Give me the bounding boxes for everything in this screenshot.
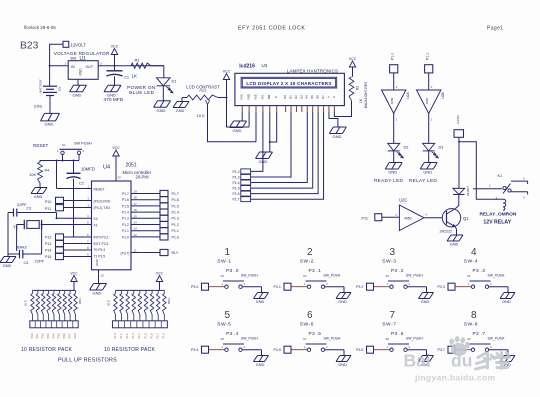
svg-text:P1.4: P1.4	[138, 333, 141, 339]
resistor pack 2 resistor 2	[120, 290, 124, 320]
wire Q1 collector	[456, 195, 459, 209]
svg-text:VDD: VDD	[247, 94, 251, 100]
svg-text:(P3.7): (P3.7)	[121, 251, 130, 255]
svg-text:RS: RS	[260, 95, 264, 99]
wire LCD K to R2	[334, 101, 351, 117]
wire LCD D5 bus	[251, 112, 313, 188]
wire pot wiper to VEE	[208, 105, 257, 142]
svg-text:R4: R4	[45, 169, 50, 173]
svg-text:(ON): (ON)	[34, 105, 42, 109]
svg-text:SW-7: SW-7	[382, 321, 396, 327]
svg-text:K1: K1	[498, 174, 503, 178]
svg-text:806: 806	[71, 56, 77, 60]
svg-text:VCC: VCC	[112, 146, 120, 150]
ground SW-5	[254, 356, 269, 367]
svg-text:P1.6: P1.6	[233, 192, 240, 196]
LED D3	[423, 143, 444, 158]
wire buffer to D2	[394, 114, 398, 144]
svg-text:GND: GND	[79, 68, 83, 76]
svg-text:R2: R2	[356, 86, 360, 90]
switch SW-1	[191, 247, 262, 293]
wire X2	[57, 214, 92, 218]
svg-text:D5: D5	[310, 95, 314, 99]
svg-text:11: 11	[134, 248, 137, 252]
ground under micro	[90, 284, 107, 296]
svg-text:15: 15	[134, 214, 138, 218]
ground SW-6	[336, 356, 351, 367]
resistor R4 10K	[29, 161, 49, 184]
svg-text:GND: GND	[93, 291, 102, 296]
resistor pack 2 resistor 9	[163, 290, 167, 320]
svg-text:1K: 1K	[359, 98, 363, 103]
ground SW-1	[254, 293, 269, 304]
svg-text:P1.0: P1.0	[122, 235, 129, 239]
wire buffer to D3	[429, 114, 433, 144]
svg-text:P0.6: P0.6	[63, 333, 66, 339]
svg-text:RW: RW	[267, 94, 271, 99]
svg-text:S6: S6	[221, 337, 225, 341]
VCC resistor pack 1	[70, 271, 78, 290]
svg-text:2: 2	[307, 247, 313, 258]
svg-text:10MFD: 10MFD	[81, 167, 95, 172]
svg-text:U3: U3	[262, 63, 268, 68]
svg-text:D1: D1	[172, 79, 178, 84]
svg-text:C2: C2	[79, 182, 84, 186]
svg-text:3: 3	[390, 247, 396, 258]
voltage regulator U1	[54, 51, 110, 79]
svg-text:10 RESISTOR PACK: 10 RESISTOR PACK	[21, 347, 72, 353]
svg-text:SW-4: SW-4	[464, 258, 478, 264]
svg-text:BLUE LED: BLUE LED	[129, 90, 154, 95]
wire regulator input	[50, 65, 69, 67]
switch SW-5	[191, 310, 262, 356]
svg-text:P1.3: P1.3	[122, 217, 129, 221]
ground SW-3	[419, 293, 434, 304]
svg-text:P1.5: P1.5	[172, 204, 179, 208]
terminal P1.0	[160, 234, 179, 240]
relay K1 contacts	[473, 174, 527, 200]
svg-text:GND: GND	[338, 363, 347, 367]
svg-text:S2: S2	[221, 274, 225, 278]
svg-text:GND: GND	[423, 170, 432, 175]
switch SW-3	[356, 247, 427, 293]
svg-text:P15: P15	[45, 255, 51, 259]
svg-text:7: 7	[390, 310, 396, 321]
wire P12 to micro	[64, 233, 92, 237]
relay K1 coil	[496, 196, 506, 210]
svg-text:GND: GND	[34, 195, 43, 199]
ground under R4	[31, 188, 47, 199]
terminal P1.2	[160, 221, 179, 227]
wire P15 to micro	[64, 252, 92, 256]
svg-text:P3.5: P3.5	[274, 348, 281, 352]
wire micro ground pin 10	[99, 270, 105, 284]
resistor pack 1 resistor 7	[63, 290, 67, 320]
svg-text:IN: IN	[71, 65, 75, 69]
svg-text:P1.1: P1.1	[172, 229, 179, 233]
svg-text:P1.5: P1.5	[233, 187, 240, 191]
svg-text:P0.2: P0.2	[42, 333, 45, 339]
svg-text:SW_PUSH: SW_PUSH	[324, 336, 341, 340]
svg-text:C1: C1	[124, 75, 130, 80]
svg-text:GND: GND	[157, 108, 166, 113]
svg-text:SW_PUSH: SW_PUSH	[488, 273, 505, 277]
wire C3 to X2	[56, 213, 58, 220]
svg-text:P0.7: P0.7	[68, 333, 71, 339]
svg-text:S9: S9	[467, 337, 471, 341]
svg-text:U2C: U2C	[399, 198, 407, 203]
svg-text:P1.6: P1.6	[150, 333, 153, 339]
svg-text:RN2: RN2	[167, 298, 171, 304]
svg-text:GND: GND	[450, 242, 459, 246]
svg-text:17: 17	[134, 202, 138, 206]
svg-text:GND: GND	[233, 128, 242, 133]
resistor pack 2 resistor 8	[156, 290, 160, 320]
svg-text:X1: X1	[94, 224, 98, 228]
ground LCD pin1	[230, 121, 247, 133]
svg-text:P1.7: P1.7	[233, 198, 240, 202]
resistor pack 2 resistor 7	[150, 290, 154, 320]
capacitor C2 10MFD	[67, 160, 95, 238]
wire VCC to LCD VDD	[227, 80, 250, 128]
svg-text:SW_PUSH: SW_PUSH	[324, 273, 341, 277]
svg-text:U4: U4	[103, 165, 110, 171]
resistor pack 2 resistor 3	[126, 290, 130, 320]
svg-text:EFY 2051 CODE LOCK: EFY 2051 CODE LOCK	[238, 26, 306, 32]
svg-text:P1.7: P1.7	[122, 192, 129, 196]
svg-text:GND: GND	[3, 264, 12, 268]
svg-text:S3: S3	[303, 274, 307, 278]
wire LCD RS to P1.2	[251, 112, 263, 171]
svg-text:D3: D3	[439, 146, 444, 150]
svg-text:P1.7: P1.7	[157, 333, 160, 339]
terminal RLY	[160, 249, 179, 255]
micro VCC pin 20	[112, 146, 121, 181]
svg-text:10K: 10K	[29, 172, 36, 177]
wire P1.0 to buffer	[394, 73, 398, 90]
wire LCD E to ground	[269, 112, 277, 143]
svg-text:D0: D0	[283, 95, 287, 99]
buffer U2A 4050	[382, 90, 411, 114]
svg-text:A: A	[326, 96, 330, 98]
capacitor C3 22PF	[8, 202, 57, 217]
wire micro P1.3	[131, 214, 160, 218]
svg-text:22PF: 22PF	[35, 259, 45, 264]
svg-text:P3.2: P3.2	[356, 285, 363, 289]
resistor R1 1K	[131, 58, 164, 79]
svg-text:P3 .0: P3 .0	[226, 268, 239, 274]
LED D1 power-on	[127, 78, 177, 95]
svg-text:12VOLT: 12VOLT	[71, 43, 87, 48]
micro pin names	[94, 187, 130, 266]
wire LCD D4 bus	[251, 112, 308, 183]
ground crystal	[0, 257, 16, 268]
terminal P1.5	[160, 203, 179, 209]
ground SW-4	[500, 293, 515, 304]
label resistor pack 2	[104, 298, 171, 353]
resistor pack 2 resistor 5	[138, 290, 142, 320]
svg-text:P11: P11	[45, 207, 51, 211]
terminal P13	[45, 240, 64, 246]
svg-text:1: 1	[225, 247, 231, 258]
svg-text:P1.0: P1.0	[163, 333, 166, 339]
svg-text:IN4007: IN4007	[466, 186, 470, 196]
svg-text:2N2222: 2N2222	[440, 230, 453, 234]
resistor pack 2 resistor 6	[144, 290, 148, 320]
svg-text:(P3.1) TXD: (P3.1) TXD	[94, 206, 111, 210]
svg-text:RLY: RLY	[172, 251, 179, 255]
switch SW-8	[438, 310, 509, 356]
svg-text:12: 12	[134, 233, 138, 237]
buffer U2C 4050	[399, 198, 428, 231]
resistor pack 1 resistor 4	[47, 290, 51, 320]
svg-text:P1.4: P1.4	[122, 211, 129, 215]
wire P10 to RXD	[64, 196, 92, 200]
wire micro P1.4	[131, 208, 160, 212]
svg-text:P0.0: P0.0	[74, 333, 77, 339]
svg-text:2051: 2051	[126, 163, 137, 169]
wire P11 to U2C	[382, 213, 400, 217]
label READY LED	[374, 178, 404, 183]
switch SW-2	[274, 247, 345, 293]
svg-text:POT: POT	[200, 89, 207, 93]
wire 12V input	[49, 44, 63, 86]
resistor pack 2 connector	[112, 321, 167, 328]
wire P13 to micro	[64, 239, 92, 243]
svg-text:RELAY_OMRON: RELAY_OMRON	[480, 211, 517, 217]
svg-text:GND: GND	[256, 300, 265, 304]
svg-text:RN1: RN1	[78, 298, 82, 304]
svg-text:P12: P12	[45, 236, 51, 240]
wire relay supply	[458, 137, 499, 199]
svg-text:P1.6: P1.6	[122, 198, 129, 202]
svg-text:P3.7: P3.7	[438, 348, 445, 352]
resistor pack 1 resistor 1	[31, 290, 35, 320]
wire X1	[42, 220, 92, 224]
micro U4 2051 box	[92, 163, 152, 270]
wire LCD VDD	[248, 112, 250, 127]
svg-text:16: 16	[134, 208, 138, 212]
label resistor pack 1	[21, 298, 82, 353]
wire P14 to micro	[64, 246, 92, 250]
svg-text:4050: 4050	[404, 216, 412, 220]
label RELAY LED	[409, 178, 437, 183]
svg-text:VCC: VCC	[70, 271, 78, 275]
wire micro P1.5	[131, 202, 160, 206]
svg-text:SW-5: SW-5	[217, 321, 231, 327]
svg-text:P1.2: P1.2	[126, 333, 129, 339]
svg-text:12V: 12V	[58, 86, 62, 91]
svg-text:U2B: U2B	[441, 91, 445, 98]
svg-text:P0.0: P0.0	[31, 333, 34, 339]
node B23	[20, 41, 39, 52]
svg-text:12V RELAY: 12V RELAY	[483, 219, 511, 225]
resistor pack 1 bus wire	[33, 289, 76, 291]
svg-text:10 K: 10 K	[107, 300, 111, 306]
svg-text:RELAY LED: RELAY LED	[409, 178, 437, 183]
svg-text:GND: GND	[502, 300, 511, 304]
label RESET	[33, 143, 49, 148]
svg-text:READY LED: READY LED	[374, 178, 404, 183]
svg-text:GND: GND	[107, 92, 116, 97]
svg-text:Q1: Q1	[463, 216, 469, 221]
svg-text:D1: D1	[288, 95, 292, 99]
svg-text:P1.4: P1.4	[233, 181, 240, 185]
svg-text:LCD DISPLAY 2 X 16 CHARACTERS: LCD DISPLAY 2 X 16 CHARACTERS	[246, 81, 331, 86]
port boxes P1.2-P1.7	[233, 169, 251, 202]
svg-text:LAMPEX HANTRONICS: LAMPEX HANTRONICS	[287, 68, 338, 73]
svg-text:D6: D6	[316, 95, 320, 99]
svg-text:P3.3: P3.3	[438, 285, 445, 289]
svg-text:10 K: 10 K	[24, 300, 28, 306]
terminal P11	[45, 205, 64, 211]
contrast pot 10K	[182, 84, 228, 118]
svg-text:BACKLIGHT RES: BACKLIGHT RES	[364, 81, 368, 108]
ground SW-2	[336, 293, 351, 304]
svg-text:D2: D2	[294, 95, 298, 99]
svg-text:GND: GND	[338, 300, 347, 304]
svg-text:C4: C4	[24, 261, 29, 265]
svg-text:P3 .1: P3 .1	[309, 268, 322, 274]
resistor pack 1 resistor 6	[58, 290, 62, 320]
diode D4 1N4007	[453, 186, 470, 196]
svg-text:P14: P14	[45, 249, 51, 253]
wire micro P1.2	[131, 221, 160, 225]
svg-text:P3 .5: P3 .5	[309, 331, 322, 337]
svg-text:(P3.0) RXD: (P3.0) RXD	[94, 199, 111, 203]
LCD pin stubs	[242, 106, 334, 112]
svg-text:SW_PUSH: SW_PUSH	[406, 336, 423, 340]
ground under C1	[104, 85, 124, 103]
svg-text:P0.4: P0.4	[52, 333, 55, 339]
push switch S1 reset	[57, 141, 92, 160]
svg-text:SW-8: SW-8	[464, 321, 478, 327]
terminal P15	[45, 253, 64, 259]
svg-text:S4: S4	[386, 274, 390, 278]
svg-text:+12VD: +12VD	[456, 114, 460, 124]
svg-text:8MHZ: 8MHZ	[16, 245, 27, 250]
wire micro P1.1	[131, 227, 160, 231]
svg-text:P1.3: P1.3	[233, 175, 240, 179]
svg-text:D4: D4	[305, 95, 309, 99]
wire crystal to X1	[41, 224, 43, 255]
svg-text:SW-3: SW-3	[382, 258, 396, 264]
resistor pack 2 resistor 1	[114, 290, 118, 320]
svg-text:R1: R1	[135, 58, 141, 63]
battery 12V	[34, 79, 62, 108]
svg-text:SW-6: SW-6	[300, 321, 314, 327]
svg-text:P3 .7: P3 .7	[473, 331, 486, 337]
svg-text:P3 .6: P3 .6	[391, 331, 404, 337]
svg-text:P1.5: P1.5	[122, 204, 129, 208]
svg-text:19: 19	[134, 190, 138, 194]
wire D2 to ground	[393, 151, 395, 163]
terminal P11 relay input	[362, 214, 382, 221]
svg-text:GND: GND	[95, 258, 99, 266]
crystal Y1	[13, 220, 42, 230]
svg-text:SW_PUSH: SW_PUSH	[241, 273, 258, 277]
wire P11 to TXD	[64, 203, 92, 207]
resistor pack 1 resistor 5	[52, 290, 56, 320]
svg-text:GND: GND	[176, 109, 185, 113]
svg-text:P1.0: P1.0	[172, 235, 179, 239]
wire P1.2 link	[251, 170, 263, 172]
buffer U2B 4050	[417, 90, 446, 114]
svg-text:VEE: VEE	[253, 94, 257, 100]
capacitor C1 470 MFD	[107, 66, 130, 86]
svg-text:P1.1: P1.1	[426, 53, 430, 60]
wire micro P1.7	[131, 190, 160, 194]
svg-text:S5: S5	[467, 274, 471, 278]
ground under Q1	[447, 235, 463, 246]
resistor pack 1 pin labels	[31, 333, 77, 339]
svg-text:P1.1: P1.1	[122, 229, 129, 233]
resistor pack 2 pin labels	[114, 333, 166, 339]
svg-text:P1.3: P1.3	[132, 333, 135, 339]
svg-text:20-PIN: 20-PIN	[136, 175, 149, 180]
terminal relay supply	[454, 114, 464, 137]
resistor pack 1 resistor 9	[74, 290, 78, 320]
svg-text:P1.4: P1.4	[172, 211, 179, 215]
wire P1.1 to buffer	[429, 73, 433, 90]
terminal P1.1	[160, 228, 179, 234]
svg-text:lcd216: lcd216	[239, 64, 255, 70]
terminal P1.7	[160, 190, 179, 196]
wire LCD D7 bus	[251, 112, 324, 199]
svg-text:P10: P10	[45, 200, 51, 204]
svg-text:P3 .4: P3 .4	[226, 331, 239, 337]
svg-text:P1.0: P1.0	[114, 333, 117, 339]
svg-text:P3.4: P3.4	[191, 348, 198, 352]
switch SW-7	[356, 310, 427, 356]
svg-text:PULL UP RESISTORS: PULL UP RESISTORS	[58, 358, 117, 364]
wire regulator output	[98, 65, 164, 67]
svg-text:P1.5: P1.5	[144, 333, 147, 339]
label relay	[480, 211, 517, 225]
wire LCD RW to ground	[269, 112, 271, 152]
ground under pot	[173, 102, 189, 113]
wire LCD VEE	[255, 112, 257, 142]
wire LCD VSS to ground	[241, 112, 243, 121]
ground under U1	[70, 79, 87, 97]
svg-text:D3: D3	[299, 95, 303, 99]
transistor Q1 2N2222	[440, 209, 470, 234]
svg-text:GND: GND	[45, 122, 54, 127]
svg-text:T1 P3.5: T1 P3.5	[94, 255, 106, 259]
svg-text:4: 4	[471, 247, 477, 258]
terminal P1.6	[160, 197, 179, 203]
resistor pack 2 resistor 4	[132, 290, 136, 320]
svg-text:INT0 P3.2: INT0 P3.2	[94, 236, 109, 240]
svg-text:5: 5	[225, 310, 231, 321]
svg-text:S7: S7	[303, 337, 307, 341]
svg-text:GND: GND	[421, 300, 430, 304]
svg-text:P11: P11	[362, 217, 368, 221]
LCD module U3	[235, 63, 345, 106]
svg-text:SW-2: SW-2	[300, 258, 314, 264]
wire crystal left leg	[16, 225, 18, 252]
svg-text:GND: GND	[73, 92, 82, 97]
svg-text:E: E	[274, 96, 278, 98]
svg-text:P1.1: P1.1	[120, 333, 123, 339]
svg-text:4050: 4050	[390, 97, 394, 104]
svg-text:Bai: Bai	[404, 351, 431, 371]
wire LCD D1 bus	[251, 112, 291, 177]
resistor pack 1 connector	[30, 321, 78, 328]
terminal P10	[45, 197, 64, 204]
svg-text:P3 .3: P3 .3	[473, 268, 486, 274]
svg-text:P1.7: P1.7	[172, 192, 179, 196]
